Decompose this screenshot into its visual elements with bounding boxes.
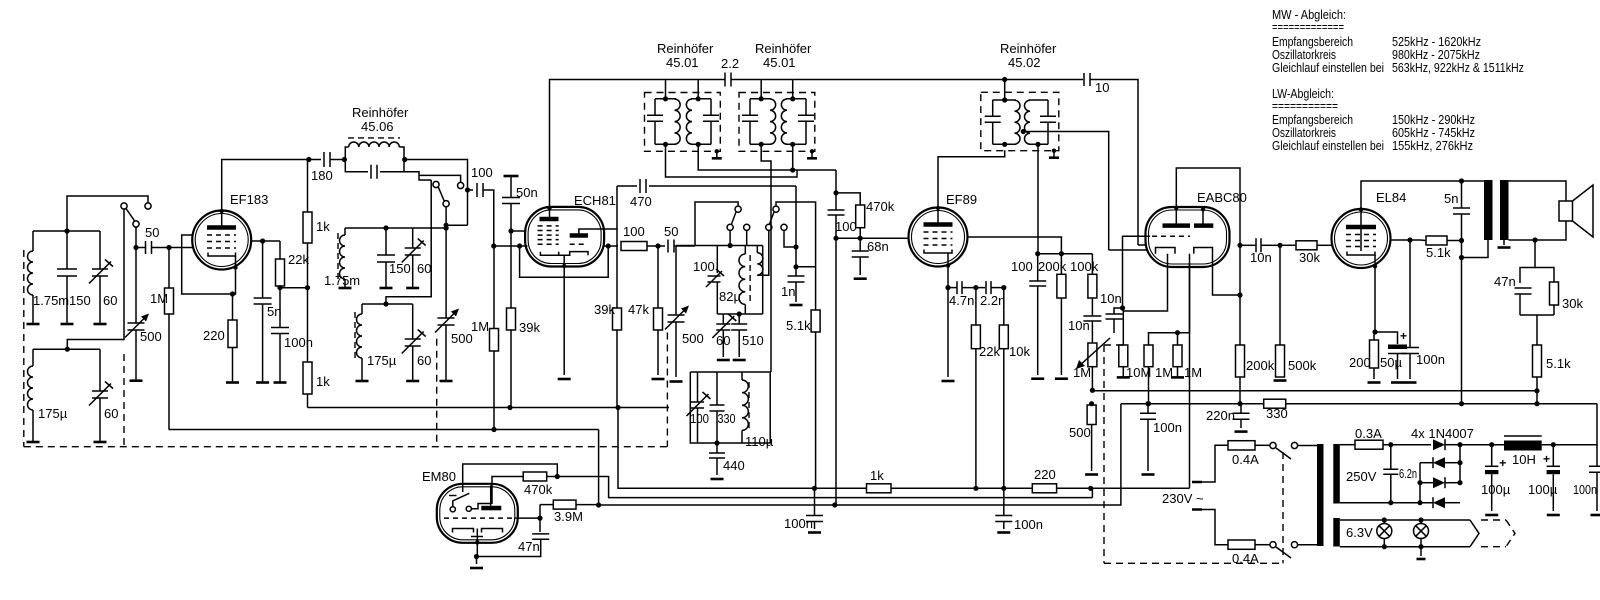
capacitor 100n second bus xyxy=(1003,488,1005,515)
junction xyxy=(1457,442,1462,447)
resistor 39k xyxy=(510,231,512,308)
svg-text:150: 150 xyxy=(69,293,91,308)
wire B+ riser xyxy=(1461,241,1463,391)
resistor 1M grid return xyxy=(1144,345,1153,367)
capacitor 100n xyxy=(279,288,281,328)
resistor 1k decoupling upper xyxy=(303,212,312,243)
wire RF tank top xyxy=(345,227,430,229)
wire mains top xyxy=(1202,445,1228,482)
heater wire top xyxy=(1340,519,1470,521)
svg-text:100: 100 xyxy=(623,224,645,239)
EF89 screen wire xyxy=(968,237,1062,254)
wire EM80 grid top xyxy=(463,464,558,492)
capacitor 10n AF coupling xyxy=(1240,244,1256,246)
wire bus1 continue xyxy=(891,487,1190,489)
wire to ECH81 grid xyxy=(484,190,528,246)
wire osc LW select xyxy=(761,144,771,372)
resistor 1M osc grid xyxy=(493,246,495,329)
wire HV bottom xyxy=(1340,502,1391,504)
svg-text:45.02: 45.02 xyxy=(1008,55,1041,70)
svg-text:1M: 1M xyxy=(1155,365,1173,380)
oscillator LW tank box xyxy=(690,372,770,443)
wire 100pF feed xyxy=(468,189,474,191)
junction xyxy=(714,440,719,445)
wire 470 cap to 1n xyxy=(795,186,797,267)
heater connector chevron xyxy=(1470,520,1479,547)
EF183 cathode envelope dot xyxy=(233,265,237,269)
resistor 1k xyxy=(867,484,892,493)
svg-text:Reinhöfer: Reinhöfer xyxy=(352,105,409,120)
capacitor 50 input coupling xyxy=(136,247,145,249)
resistor 470k EM80 xyxy=(492,477,523,505)
junction xyxy=(832,502,837,507)
svg-text:100n: 100n xyxy=(784,516,813,531)
junction xyxy=(1277,243,1282,248)
wire AVC bus lower-left xyxy=(169,429,599,431)
EM80 target lead xyxy=(490,485,492,506)
wire xyxy=(1383,444,1431,446)
svg-text:45.01: 45.01 xyxy=(763,55,796,70)
resistor 200k xyxy=(1060,254,1062,275)
wire antenna switch feed xyxy=(67,196,148,231)
capacitor 150 xyxy=(66,231,68,269)
heater wire bottom xyxy=(1340,546,1470,548)
capacitor 220n xyxy=(1233,413,1250,419)
resistor 220 xyxy=(1032,484,1056,493)
svg-text:155kHz, 276kHz: 155kHz, 276kHz xyxy=(1392,138,1473,153)
svg-text:Gleichlauf einstellen bei: Gleichlauf einstellen bei xyxy=(1272,138,1384,153)
gang link dashed 2 xyxy=(436,339,438,447)
junction xyxy=(1001,285,1006,290)
EL84 anode riser top rail xyxy=(1361,181,1484,209)
EF89 plate xyxy=(924,222,953,227)
tube EM80 xyxy=(437,484,518,543)
trimmer capacitor 60 RF xyxy=(412,228,414,248)
wire tank1 top rail xyxy=(33,230,100,232)
junction xyxy=(133,245,138,250)
pilot lamp 1 xyxy=(1377,524,1392,539)
svg-text:10n: 10n xyxy=(1100,291,1122,306)
capacitor 100n output filter xyxy=(1596,445,1598,467)
svg-text:100µ: 100µ xyxy=(1481,482,1511,497)
variable capacitor 500 tuning gang 3 oscillator xyxy=(675,246,677,316)
svg-text:6.3V: 6.3V xyxy=(1346,525,1373,540)
wire to transformer xyxy=(1298,445,1318,447)
gang link dashed 3 xyxy=(24,333,668,447)
resistor 22k xyxy=(975,288,977,325)
junction xyxy=(812,486,817,491)
svg-text:200k: 200k xyxy=(1246,358,1275,373)
svg-text:50: 50 xyxy=(664,224,678,239)
svg-text:100n: 100n xyxy=(1573,482,1597,497)
capacitor 330 osc LW xyxy=(716,372,718,405)
EF89 cathode xyxy=(924,250,952,254)
diode D2 xyxy=(1420,462,1433,464)
capacitor 50u electrolytic xyxy=(1375,332,1398,344)
EABC80 envelope dot xyxy=(1174,206,1178,210)
svg-text:10n: 10n xyxy=(1250,250,1272,265)
terminal xyxy=(27,323,40,326)
junction xyxy=(1551,442,1556,447)
EF89 grids dashed xyxy=(924,231,953,233)
wire feedback to switch xyxy=(757,231,769,276)
svg-text:+: + xyxy=(1400,329,1407,343)
svg-text:220n: 220n xyxy=(1206,408,1235,423)
wire rail B 330 feed xyxy=(1121,403,1597,405)
45.02 tap wire to detector diode xyxy=(1021,129,1026,134)
wire diode input 1 xyxy=(1109,249,1147,251)
capacitor 4.7n xyxy=(948,287,957,289)
fuse 0.4A bottom xyxy=(1228,540,1255,549)
svg-text:1k: 1k xyxy=(316,219,330,234)
resistor 5.1k xyxy=(815,267,817,310)
diode D4 xyxy=(1391,502,1433,504)
junction xyxy=(1534,388,1539,393)
junction xyxy=(260,238,265,243)
junction xyxy=(1002,77,1007,82)
junction xyxy=(793,264,798,269)
svg-text:330: 330 xyxy=(1266,406,1288,421)
power transformer HV secondary bar xyxy=(1333,444,1340,504)
capacitor 100 detector xyxy=(1037,254,1039,281)
svg-text:45.06: 45.06 xyxy=(361,119,394,134)
wire arm to 100 cap node xyxy=(446,224,467,226)
variable capacitor 500 tuning gang 2 xyxy=(445,225,447,318)
ECH81 heptode plate xyxy=(540,217,559,222)
wire B+ rail A xyxy=(1092,390,1537,392)
wire xyxy=(647,245,665,247)
EF183 cathode xyxy=(208,253,236,257)
ECH81 triode grid dashed xyxy=(570,243,586,245)
svg-text:180: 180 xyxy=(311,168,333,183)
bridge link left xyxy=(1419,463,1421,503)
wire EF183 anode riser xyxy=(222,160,321,211)
EL84 internal g2 xyxy=(1360,229,1362,251)
ECH81 cathode lead xyxy=(563,255,565,375)
wire osc grid row xyxy=(603,245,618,247)
capacitor 10 top coupling xyxy=(1005,79,1083,81)
capacitor 10n volume top xyxy=(1091,298,1093,316)
tube EABC80 xyxy=(1146,207,1230,267)
mains plug pins xyxy=(1192,482,1202,510)
resistor 100k xyxy=(1091,254,1093,275)
diode D3 xyxy=(1420,482,1433,484)
svg-text:4.7n: 4.7n xyxy=(949,293,974,308)
svg-text:1n: 1n xyxy=(781,284,795,299)
wire EABC80 cathode down xyxy=(1189,263,1191,488)
wire RF LW tank top xyxy=(362,303,413,305)
junction xyxy=(1459,178,1464,183)
wire EF89 grid xyxy=(836,237,908,239)
EF89 cathode lead xyxy=(946,263,950,267)
antenna coil L2 175u xyxy=(32,349,34,366)
EM80 cathode ground xyxy=(476,557,478,565)
wire bus1 screen supply xyxy=(618,408,867,489)
wire LW select xyxy=(386,180,431,304)
EABC80 plate wire top xyxy=(1176,168,1240,245)
wire LW tank to switch xyxy=(67,209,124,349)
wire S1d common xyxy=(776,202,816,267)
svg-text:EF89: EF89 xyxy=(946,192,977,207)
wire AVC to EM80 xyxy=(598,430,600,505)
junction xyxy=(230,291,235,296)
svg-text:6.2n: 6.2n xyxy=(1399,466,1417,481)
mains switch top xyxy=(1270,442,1276,448)
wire B+ down to PSU xyxy=(1596,404,1598,445)
band switch S1a xyxy=(121,203,127,209)
capacitor 100 IF xyxy=(835,193,837,210)
wire secondary ground xyxy=(1503,240,1505,245)
gang link dashed xyxy=(123,354,125,447)
EABC80 diode plate xyxy=(1194,223,1213,228)
svg-text:1M: 1M xyxy=(150,291,168,306)
heater connector mating dashed xyxy=(1481,520,1515,547)
svg-text:100k: 100k xyxy=(1070,259,1099,274)
svg-text:100µ: 100µ xyxy=(1528,482,1558,497)
wire IF1 primary bottom xyxy=(666,144,798,177)
oscillator feedback coil xyxy=(756,246,758,253)
tube ECH81 xyxy=(525,207,604,267)
svg-text:22k: 22k xyxy=(288,252,309,267)
svg-text:440: 440 xyxy=(723,458,745,473)
coil 1.75m RF stage xyxy=(344,228,346,235)
wire osc MW tank top xyxy=(729,231,731,246)
resistor 1k decoupling lower xyxy=(303,362,312,394)
svg-text:=============: ============= xyxy=(1272,19,1344,34)
capacitor 68n xyxy=(859,238,861,251)
capacitor 47n feedback xyxy=(1515,288,1532,294)
heater ground xyxy=(1420,547,1422,556)
resistor 100 grid stopper xyxy=(621,242,647,251)
wire xyxy=(1542,444,1597,446)
svg-text:0.4A: 0.4A xyxy=(1232,452,1259,467)
svg-text:100: 100 xyxy=(835,219,857,234)
EF89 anode riser xyxy=(938,150,1005,207)
ECH81 heptode cathode xyxy=(540,252,558,256)
capacitor 10n coupling to grid xyxy=(1106,314,1123,319)
EL84 screen wire xyxy=(1391,239,1421,241)
capacitor 5n screen bypass xyxy=(262,241,264,298)
resistor 30k grid stopper xyxy=(1277,244,1296,246)
svg-text:1k: 1k xyxy=(316,374,330,389)
resistor 330 xyxy=(1264,399,1286,408)
svg-text:100n: 100n xyxy=(1014,517,1043,532)
oscillator coil 110u LW xyxy=(741,372,743,380)
diode D1 xyxy=(1433,439,1445,450)
wire triode grid xyxy=(1114,236,1150,314)
core line dashed left shield xyxy=(23,250,25,447)
svg-text:60: 60 xyxy=(417,353,431,368)
svg-text:220: 220 xyxy=(1034,467,1056,482)
svg-text:50n: 50n xyxy=(516,185,538,200)
wire xyxy=(1255,444,1270,446)
trimmer capacitor 100 osc LW xyxy=(691,402,704,408)
junction xyxy=(1090,388,1095,393)
capacitor 1n xyxy=(795,267,797,276)
svg-text:60: 60 xyxy=(716,333,730,348)
wire speaker bottom xyxy=(1509,221,1567,240)
EM80 lower electrodes xyxy=(453,529,503,533)
svg-text:+: + xyxy=(1543,452,1550,466)
IF1 secondary top riser xyxy=(697,80,699,99)
output transformer primary bar xyxy=(1484,180,1493,240)
svg-text:4x 1N4007: 4x 1N4007 xyxy=(1411,426,1474,441)
wire EM80 deflector node xyxy=(537,516,542,521)
svg-text:60: 60 xyxy=(103,293,117,308)
power transformer heater secondary bar xyxy=(1333,518,1340,547)
band switch S1b xyxy=(433,181,439,187)
trimmer capacitor 60 osc xyxy=(722,314,724,324)
junction xyxy=(1237,401,1242,406)
svg-text:100: 100 xyxy=(1011,259,1033,274)
junction xyxy=(491,427,496,432)
wire decoupled B rail xyxy=(308,407,670,409)
svg-text:50µ: 50µ xyxy=(1380,355,1402,370)
svg-text:175µ: 175µ xyxy=(38,406,68,421)
junction xyxy=(1388,442,1393,447)
junction xyxy=(491,243,496,248)
svg-text:Reinhöfer: Reinhöfer xyxy=(1000,41,1057,56)
svg-text:500: 500 xyxy=(140,329,162,344)
capacitor 50n AGC xyxy=(504,175,519,178)
resistor 5.1k feedback xyxy=(1533,345,1542,377)
resistor 500k grid leak EL84 xyxy=(1279,245,1281,345)
band switch S1c xyxy=(735,206,741,212)
power transformer primary bar xyxy=(1317,444,1324,546)
svg-text:510: 510 xyxy=(742,333,764,348)
resistor 10M xyxy=(1119,345,1128,367)
svg-text:30k: 30k xyxy=(1562,296,1583,311)
wire xyxy=(746,231,748,246)
wire 50n to ECH81 xyxy=(511,230,526,232)
EM80 cathode lead xyxy=(476,537,478,557)
svg-text:5.1k: 5.1k xyxy=(1426,245,1451,260)
EF183 g3-cathode loop wire xyxy=(182,235,236,294)
junction xyxy=(945,285,950,290)
45.02 secondary bottom lead xyxy=(1037,144,1039,253)
svg-text:EF183: EF183 xyxy=(230,192,268,207)
svg-text:100: 100 xyxy=(471,165,493,180)
EF183 grid g1 g2 g3 dashed xyxy=(207,234,236,236)
capacitor 50 osc grid xyxy=(668,240,674,253)
IF2 secondary top riser to bus xyxy=(792,80,794,99)
junction xyxy=(555,474,560,479)
svg-text:470k: 470k xyxy=(524,482,553,497)
capacitor 440 padder LW xyxy=(716,443,718,453)
ECH81 triode plate xyxy=(570,233,588,238)
junction xyxy=(465,187,470,192)
svg-text:82µ: 82µ xyxy=(719,289,741,304)
svg-text:200k: 200k xyxy=(1038,259,1067,274)
core adjust xyxy=(810,149,814,153)
svg-text:5n: 5n xyxy=(1444,191,1458,206)
wire IF2 secondary bottom to detector xyxy=(698,144,836,170)
junction xyxy=(1146,401,1151,406)
wire ECH81 triode anode node xyxy=(604,186,617,229)
output transformer secondary bar xyxy=(1500,180,1509,240)
svg-text:10n: 10n xyxy=(1068,318,1090,333)
wire to 5.1k xyxy=(796,266,816,268)
IF bus wire xyxy=(666,79,699,81)
resistor 5.1k screen xyxy=(1426,236,1447,245)
resistor 22k screen xyxy=(279,241,281,259)
fuse 0.3A xyxy=(1355,440,1383,449)
junction xyxy=(1035,251,1040,256)
core adjust xyxy=(715,149,719,153)
svg-text:1M: 1M xyxy=(1073,365,1091,380)
loudspeaker xyxy=(1559,201,1573,221)
resistor 1M second xyxy=(1173,345,1182,367)
capacitor 100u first filter xyxy=(1489,442,1494,447)
wire speaker top xyxy=(1509,181,1567,201)
svg-text:0.3A: 0.3A xyxy=(1355,426,1382,441)
junction xyxy=(64,228,69,233)
resistor 10k xyxy=(1003,288,1005,325)
svg-text:10k: 10k xyxy=(1009,344,1030,359)
capacitor 470 osc coupling xyxy=(617,185,637,187)
junction xyxy=(508,228,513,233)
junction xyxy=(305,285,310,290)
junction xyxy=(277,285,282,290)
junction xyxy=(166,245,171,250)
wire filter output xyxy=(404,160,468,191)
EABC80 cathodes xyxy=(1156,248,1213,254)
svg-text:470: 470 xyxy=(630,194,652,209)
junction xyxy=(858,236,863,241)
junction xyxy=(65,347,70,352)
resistor 200k EABC80 load xyxy=(1239,245,1241,345)
choke 10H xyxy=(1504,435,1542,437)
junction xyxy=(1459,238,1464,243)
wire right tank side xyxy=(762,246,764,315)
svg-text:45.01: 45.01 xyxy=(666,55,699,70)
wire AGC dropper xyxy=(835,170,837,193)
oscillator coil 82u MW xyxy=(716,246,718,274)
svg-text:68n: 68n xyxy=(867,239,889,254)
svg-text:47n: 47n xyxy=(518,539,540,554)
capacitor 180 coupling xyxy=(324,152,330,167)
EL84 cathode xyxy=(1347,252,1375,256)
junction xyxy=(306,157,311,162)
svg-text:EL84: EL84 xyxy=(1376,190,1406,205)
mains switch bottom xyxy=(1270,542,1276,548)
svg-text:ECH81: ECH81 xyxy=(574,193,616,208)
wire mains bottom xyxy=(1202,510,1228,545)
svg-text:330: 330 xyxy=(718,411,736,426)
wire band switch S1b feed xyxy=(404,172,431,180)
svg-text:2.2n: 2.2n xyxy=(980,293,1005,308)
svg-text:100n: 100n xyxy=(1153,420,1182,435)
IF bus wire to 45.02 xyxy=(761,79,793,81)
capacitor 6.2n xyxy=(1390,445,1392,470)
svg-text:22k: 22k xyxy=(979,344,1000,359)
junction xyxy=(596,502,601,507)
junction xyxy=(383,225,388,230)
junction xyxy=(833,190,838,195)
svg-text:150: 150 xyxy=(389,261,411,276)
resistor 1M grid leak xyxy=(168,248,170,289)
svg-text:47n: 47n xyxy=(1494,274,1516,289)
wire AGC feed down xyxy=(835,238,837,505)
EM80 target bar xyxy=(481,506,501,511)
wire HV top xyxy=(1340,444,1355,446)
trimmer capacitor 60 xyxy=(99,231,101,269)
svg-text:563kHz, 922kHz & 1511kHz: 563kHz, 922kHz & 1511kHz xyxy=(1392,60,1524,75)
svg-text:220: 220 xyxy=(203,328,225,343)
resistor 3.9M xyxy=(539,505,541,518)
junction xyxy=(1532,237,1537,242)
junction xyxy=(833,236,838,241)
